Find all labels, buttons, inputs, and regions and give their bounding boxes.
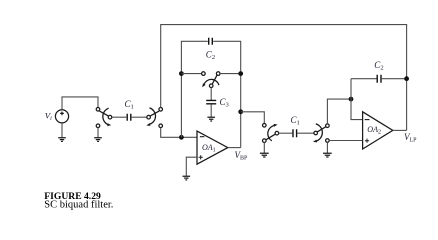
switch SW1 top throw contact (96, 108, 100, 112)
svg-text:OA1: OA1 (202, 143, 216, 154)
switch SW1 arc with arrow (103, 108, 109, 125)
op-amp OA1 plus sign (199, 155, 203, 159)
wire SW4 top throw up to OA2 inverting node (327, 99, 351, 124)
ground below Vi (58, 138, 66, 142)
outer feedback loop wire from SW2 top throw over the top to VLP node (161, 25, 407, 131)
wire OA1 output to VBP node (228, 147, 241, 149)
node junction dot OA2 inverting input (349, 97, 354, 102)
switch SW1 pole contact (108, 115, 112, 119)
switch SW2 pole contact (147, 115, 151, 119)
wire SW5 pole to capacitor C3 (210, 88, 212, 100)
wire C1a to switch SW2 pole (132, 116, 147, 118)
ground below OA1 plus input (183, 176, 191, 180)
svg-text:VLP: VLP (404, 132, 417, 144)
switch SW3 top throw contact (263, 124, 267, 128)
ground below SW4 (323, 153, 332, 157)
wire SW4 bottom throw to OA2 noninverting input (329, 140, 362, 142)
svg-text:OA2: OA2 (367, 125, 381, 136)
wire SW2 bottom throw down and right to OA1 inverting input (161, 128, 197, 138)
ground below SW3 (260, 153, 269, 157)
switch SW2 arc with arrow (149, 108, 155, 125)
node junction dot VBP branch (238, 109, 243, 114)
wire C2b feedback left side down to OA2 inverting input (351, 79, 363, 120)
wire node line right segment (220, 73, 241, 75)
svg-text:C2: C2 (206, 50, 215, 62)
svg-text:Vi: Vi (45, 110, 52, 122)
capacitor C3 (206, 100, 216, 103)
voltage source Vi circle (55, 110, 68, 123)
node junction dot C2b to outer loop (404, 76, 409, 81)
wire C2b right segment to VLP vertical (382, 78, 407, 80)
capacitor C2b (377, 75, 381, 83)
svg-text:C2: C2 (374, 60, 383, 72)
svg-text:C1: C1 (291, 115, 300, 127)
switch SW3 arc with arrow (268, 125, 275, 140)
op-amp OA2 plus sign (365, 139, 369, 143)
voltage source plus sign (60, 112, 64, 116)
wire SW3 pole to capacitor C1b (279, 132, 293, 134)
wire C1b to switch SW4 pole (297, 132, 314, 134)
switch SW4 bottom throw contact (326, 139, 330, 143)
switch SW4 arc with arrow (316, 124, 323, 141)
op-amp OA1 minus sign (200, 136, 205, 138)
switch SW5 right throw contact (216, 72, 220, 76)
node junction dot at OA1 inverting input (179, 135, 184, 140)
switch SW5 pole contact (209, 84, 213, 88)
switch SW4 blade (317, 127, 325, 132)
switch SW5 left throw contact (202, 72, 206, 76)
capacitor C1a (127, 114, 131, 121)
switch SW1 bottom throw contact (96, 124, 100, 128)
wire OA1 noninverting input to ground (186, 157, 197, 176)
wire SW4 bottom throw to ground (326, 142, 328, 153)
wire C2a to right vertical of feedback box (213, 41, 241, 147)
node dot left of switch SW5 line (179, 71, 184, 76)
wire C2b left segment (351, 78, 377, 80)
ground below C3 (207, 117, 215, 121)
wire C3 to ground (210, 105, 212, 117)
wire OA2 output to VLP (393, 129, 407, 131)
svg-text:C1: C1 (125, 99, 134, 111)
capacitor C1b (293, 129, 297, 137)
wire SW3 bottom throw to ground (263, 143, 265, 154)
switch SW1 blade (100, 111, 109, 116)
ground below SW1 (94, 138, 102, 142)
switch SW2 top throw contact (159, 108, 163, 112)
switch SW4 top throw contact (326, 124, 330, 128)
switch SW5 arc with arrow (204, 79, 219, 85)
wire SW1 bottom throw to ground (97, 128, 99, 138)
svg-text:C3: C3 (220, 97, 229, 109)
switch SW4 pole contact (314, 131, 318, 135)
wire VBP node to switch SW3 top throw (241, 112, 265, 124)
op-amp OA2 triangle (363, 112, 393, 149)
switch SW2 blade (150, 111, 159, 116)
op-amp OA1 triangle (197, 131, 228, 164)
switch SW3 blade (266, 134, 275, 140)
svg-text:VBP: VBP (235, 150, 249, 162)
switch SW2 bottom throw contact (159, 124, 163, 128)
wire node line left segment (181, 73, 201, 75)
svg-text:SC biquad filter.: SC biquad filter. (44, 200, 113, 211)
op-amp OA2 minus sign (365, 119, 370, 121)
switch SW5 blade (212, 75, 217, 84)
voltage source Vi wire to switch SW1 (62, 97, 98, 110)
wire SW1 pole to capacitor C1a (112, 116, 127, 118)
node dot right of switch SW5 line (238, 71, 243, 76)
capacitor C2a (209, 38, 213, 45)
wire left vertical of C2a feedback box (181, 41, 207, 137)
wire Vi to ground (61, 123, 63, 137)
switch SW3 pole contact (275, 131, 279, 135)
switch SW3 bottom throw contact (263, 139, 267, 143)
